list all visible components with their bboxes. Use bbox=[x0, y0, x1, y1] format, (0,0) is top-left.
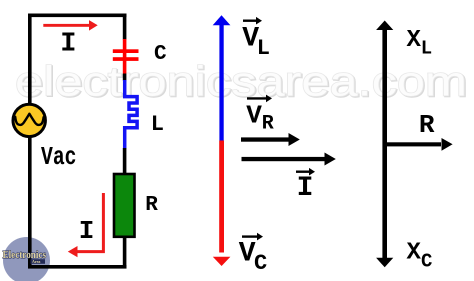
phasor VR (black, right) bbox=[241, 133, 300, 146]
svg-text:R: R bbox=[145, 194, 158, 217]
inductor L blue coil bbox=[125, 80, 137, 149]
svg-text:C: C bbox=[154, 43, 167, 66]
reactance axis vertical (XL up / XC down) bbox=[376, 21, 393, 268]
svg-text:R: R bbox=[262, 113, 274, 136]
label VR with vector arrow bbox=[246, 95, 274, 136]
svg-text:Area: Area bbox=[32, 259, 40, 264]
label VL with vector arrow bbox=[242, 17, 270, 61]
svg-text:V: V bbox=[246, 100, 262, 130]
phasor VL (blue, up) bbox=[213, 15, 231, 140]
svg-text:Vac: Vac bbox=[41, 142, 77, 172]
svg-text:I: I bbox=[79, 216, 95, 246]
wire right branch top segment bbox=[123, 14, 127, 40]
label I with vector arrow bbox=[296, 168, 315, 204]
svg-text:X: X bbox=[407, 27, 422, 54]
capacitor C1 red bbox=[113, 39, 139, 74]
wire below R bbox=[123, 236, 127, 269]
AC source Vac bbox=[13, 104, 45, 136]
wire bottom bbox=[28, 265, 127, 269]
logo text Electronics bbox=[3, 249, 47, 264]
phasor I (black, right) bbox=[242, 153, 336, 166]
wire between C and L bbox=[123, 74, 127, 81]
current arrow top (red) bbox=[43, 20, 97, 31]
svg-text:C: C bbox=[421, 251, 432, 273]
wire top bbox=[28, 14, 127, 18]
wire between L and R bbox=[123, 148, 127, 174]
svg-text:I: I bbox=[60, 29, 76, 59]
svg-text:L: L bbox=[151, 112, 164, 137]
phasor VC (red, down) bbox=[213, 141, 231, 267]
svg-text:L: L bbox=[257, 36, 270, 61]
resistance arrow R (black, right) bbox=[383, 138, 453, 151]
label VC with vector arrow bbox=[239, 233, 267, 276]
svg-text:X: X bbox=[407, 239, 422, 266]
resistor R green bbox=[114, 174, 135, 237]
svg-text:electronicsarea.com: electronicsarea.com bbox=[15, 58, 467, 105]
svg-text:C: C bbox=[254, 251, 267, 276]
svg-text:I: I bbox=[297, 173, 314, 204]
wire left bbox=[28, 14, 32, 269]
logo circle (ElectronicsArea) bbox=[3, 237, 50, 281]
current arrow bottom (red, L-shaped) bbox=[68, 193, 104, 257]
svg-text:R: R bbox=[419, 110, 435, 140]
label XC bbox=[407, 239, 433, 272]
svg-text:L: L bbox=[421, 38, 432, 60]
label XL bbox=[407, 27, 433, 60]
